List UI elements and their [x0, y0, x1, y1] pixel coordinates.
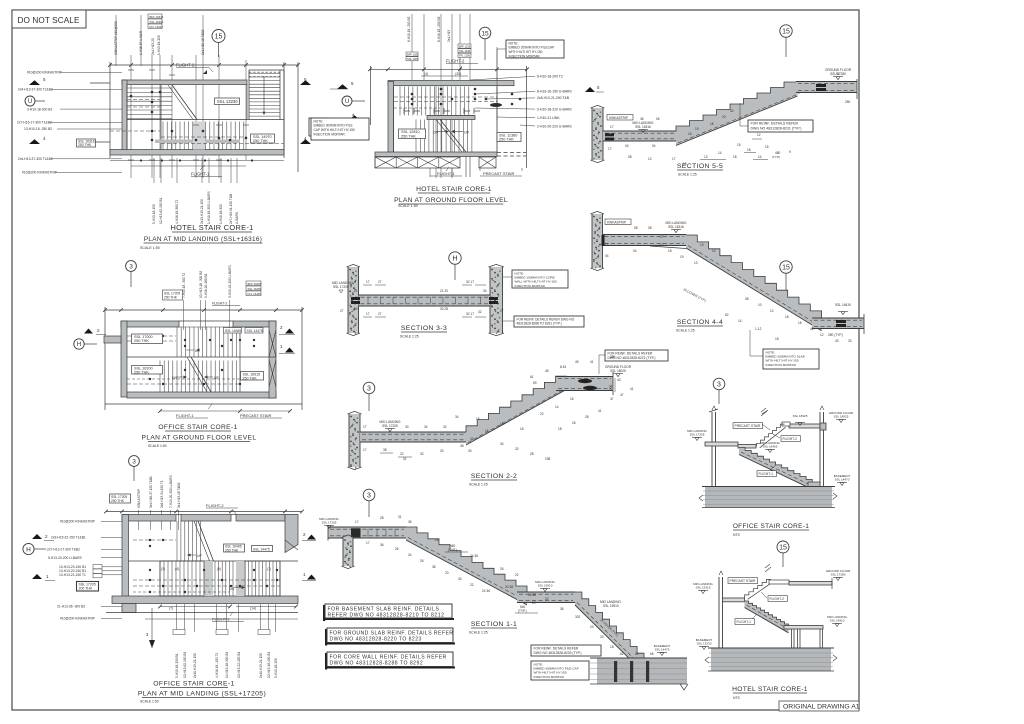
- svg-text:9: 9: [789, 150, 791, 154]
- svg-text:49: 49: [575, 360, 579, 364]
- svg-text:15: 15: [737, 143, 741, 147]
- svg-text:8-H10-18-200 T2: 8-H10-18-200 T2: [537, 75, 563, 79]
- section marker 15: [479, 27, 491, 39]
- svg-text:DN: DN: [229, 587, 234, 591]
- svg-text:8-H16-16-150 U-BARS: 8-H16-16-150 U-BARS: [537, 90, 572, 94]
- svg-text:DWG NO 48312828-8231 (TYP.): DWG NO 48312828-8231 (TYP.): [751, 126, 802, 130]
- svg-text:18: 18: [775, 337, 779, 341]
- section marker 3: [129, 456, 140, 467]
- svg-text:(TYP.): (TYP.): [448, 548, 457, 552]
- svg-text:3x4-H16-37-150 T&B1: 3x4-H16-37-150 T&B1: [149, 476, 153, 508]
- svg-text:21-H13-36 -300 B2: 21-H13-36 -300 B2: [57, 605, 85, 609]
- svg-text:SSL 13230: SSL 13230: [697, 642, 712, 646]
- flight break diagonal: [440, 120, 466, 153]
- svg-text:17: 17: [363, 448, 367, 452]
- svg-text:1-H16-87 U-BAR: 1-H16-87 U-BAR: [139, 30, 143, 55]
- top wall opening: [179, 320, 233, 322]
- office stair core-1 plan at mid landing: [23, 456, 316, 704]
- top wall: [388, 81, 514, 86]
- svg-text:FLIGHT-1: FLIGHT-1: [212, 617, 230, 622]
- interior mid line: [127, 356, 276, 358]
- svg-text:FOR REINF. DETAILS REFER: FOR REINF. DETAILS REFER: [534, 647, 579, 651]
- svg-text:62: 62: [620, 652, 624, 656]
- bottom wall: [110, 150, 284, 156]
- svg-text:SCALE 1:25: SCALE 1:25: [678, 173, 697, 177]
- svg-text:12: 12: [648, 157, 652, 161]
- right wall with chamfer: [285, 515, 298, 553]
- svg-text:15: 15: [485, 429, 489, 433]
- svg-text:32 17: 32 17: [466, 312, 474, 316]
- svg-text:SCALE 1:50: SCALE 1:50: [140, 246, 160, 250]
- right wall: [269, 321, 276, 398]
- svg-text:22: 22: [470, 583, 474, 587]
- left wall: [122, 515, 129, 597]
- svg-text:H: H: [26, 546, 31, 553]
- svg-text:200 THK: 200 THK: [79, 587, 93, 591]
- svg-text:REFER DWG NO 48312828-8210 TO: REFER DWG NO 48312828-8210 TO 8212: [328, 613, 445, 619]
- svg-text:15: 15: [765, 145, 769, 149]
- top dimension line: [105, 309, 302, 311]
- svg-text:1-12: 1-12: [755, 327, 762, 331]
- svg-text:SCALE 1:50: SCALE 1:50: [148, 444, 167, 448]
- svg-text:10: 10: [758, 303, 762, 307]
- svg-text:SSL 15316: SSL 15316: [696, 586, 711, 590]
- svg-text:41: 41: [630, 387, 634, 391]
- svg-text:31: 31: [398, 515, 402, 519]
- svg-text:21 20: 21 20: [440, 289, 448, 293]
- svg-text:17: 17: [660, 235, 664, 239]
- svg-text:65: 65: [650, 652, 654, 656]
- interior outline: [393, 87, 395, 153]
- svg-text:17: 17: [355, 520, 359, 524]
- SSL 14970 box: [251, 134, 275, 143]
- mid landing slab top left: [328, 527, 406, 538]
- svg-text:17: 17: [672, 157, 676, 161]
- section marker 15: [780, 261, 792, 273]
- svg-text:2x7-H13-91-150 T&B: 2x7-H13-91-150 T&B: [229, 194, 233, 224]
- svg-text:13-H10-18 -250 B2: 13-H10-18 -250 B2: [24, 127, 52, 131]
- svg-text:18: 18: [798, 321, 802, 325]
- reinforcement dashed lines: [127, 99, 160, 101]
- stair flight up: [466, 376, 567, 445]
- SSL 11380 box: [497, 133, 521, 142]
- svg-text:HOTEL STAIR CORE-1: HOTEL STAIR CORE-1: [170, 223, 253, 232]
- svg-text:FLIGHT-2: FLIGHT-2: [212, 302, 227, 306]
- bottom dim lines: [106, 612, 298, 614]
- flight break diagonal: [198, 521, 214, 561]
- svg-text:SSL 16465: SSL 16465: [225, 329, 241, 333]
- svg-text:FOR REINF. DETAILS REFER: FOR REINF. DETAILS REFER: [751, 122, 799, 126]
- reinf note 1-1: [531, 645, 601, 656]
- svg-text:18: 18: [785, 315, 789, 319]
- svg-text:SSL 18025: SSL 18025: [610, 369, 626, 373]
- dashed reinforcement: [127, 335, 176, 337]
- svg-text:SSL 1281: SSL 1281: [407, 57, 419, 61]
- svg-text:BFF 16316: BFF 16316: [150, 15, 164, 19]
- svg-text:47: 47: [620, 393, 624, 397]
- svg-text:FOR CORE WALL REINF. DETAILS R: FOR CORE WALL REINF. DETAILS REFER: [330, 654, 447, 660]
- foundation raft: [711, 648, 831, 671]
- svg-text:FFL 16316: FFL 16316: [150, 25, 164, 29]
- core wall: [349, 414, 360, 467]
- svg-text:3x1-H13-18 T&B2: 3x1-H13-18 T&B2: [177, 482, 181, 508]
- section marker 3: [363, 489, 375, 501]
- arrow markers right: [307, 535, 316, 540]
- svg-text:14: 14: [738, 319, 742, 323]
- svg-text:PLAN AT GROUND FLOOR LEVEL: PLAN AT GROUND FLOOR LEVEL: [142, 435, 257, 442]
- svg-text:DWG NO 48312828-8288 TO 8292: DWG NO 48312828-8288 TO 8292: [330, 661, 424, 667]
- svg-text:14: 14: [712, 249, 716, 253]
- svg-text:3: 3: [717, 382, 721, 389]
- svg-text:15: 15: [476, 417, 480, 421]
- svg-text:SSL 15910: SSL 15910: [538, 584, 553, 588]
- office stair core-1 elevation: [687, 378, 854, 537]
- svg-text:18: 18: [710, 122, 714, 126]
- grid marker U: [342, 96, 352, 106]
- ground floor landing slab: [796, 82, 857, 93]
- svg-text:32: 32: [478, 310, 482, 314]
- section marker 15: [777, 541, 789, 553]
- svg-text:SECTION 5-5: SECTION 5-5: [677, 163, 723, 170]
- flight-1 treads: [162, 122, 164, 150]
- basement slab note box: [323, 605, 325, 621]
- svg-text:SECTION 4-4: SECTION 4-4: [677, 319, 723, 326]
- svg-text:KINKASTRIP #10@200: KINKASTRIP #10@200: [114, 21, 118, 55]
- grid marker H: [23, 543, 34, 554]
- svg-text:24 36: 24 36: [482, 589, 490, 593]
- svg-text:(14): (14): [250, 607, 256, 611]
- stair flight descending: [686, 235, 822, 331]
- flight 2 descending steep: [575, 592, 644, 673]
- svg-text:15: 15: [779, 545, 787, 552]
- svg-text:250 THK: 250 THK: [499, 137, 514, 141]
- svg-text:10-H13-21-150 T1: 10-H13-21-150 T1: [59, 573, 86, 577]
- tread band groups: [204, 561, 213, 596]
- ground floor slab: [789, 424, 820, 428]
- office stair core-1 plan at ground floor level: [74, 261, 304, 448]
- right core wall: [490, 267, 503, 333]
- flight-1 label: [757, 471, 776, 477]
- svg-text:43: 43: [617, 378, 621, 382]
- svg-text:PLAN AT MID LANDING (SSL+17205: PLAN AT MID LANDING (SSL+17205): [138, 691, 266, 698]
- svg-text:SSL 14475: SSL 14475: [655, 648, 670, 652]
- svg-text:04: 04: [652, 144, 656, 148]
- svg-text:30: 30: [730, 109, 734, 113]
- svg-text:SSL 17205: SSL 17205: [333, 285, 349, 289]
- svg-text:SSL 16465: SSL 16465: [763, 445, 778, 449]
- svg-text:250 (TYP.): 250 (TYP.): [828, 333, 843, 337]
- svg-text:17: 17: [608, 147, 612, 151]
- svg-text:2x8-H13-34-150 T1: 2x8-H13-34-150 T1: [160, 480, 164, 508]
- svg-text:13: 13: [704, 155, 708, 159]
- svg-text:DN: DN: [433, 131, 439, 135]
- svg-text:17: 17: [660, 243, 664, 247]
- svg-text:33: 33: [848, 339, 852, 343]
- section 2-2: [348, 350, 669, 487]
- svg-text:4-H16-18 -150 T2: 4-H16-18 -150 T2: [215, 653, 219, 678]
- svg-text:UP: UP: [464, 131, 470, 135]
- svg-text:(6): (6): [217, 567, 221, 571]
- svg-text:26: 26: [500, 567, 504, 571]
- svg-text:250 THK: 250 THK: [134, 370, 149, 374]
- section marker 15: [212, 30, 225, 43]
- top wall: [122, 80, 247, 85]
- svg-text:FLIGHT-1: FLIGHT-1: [737, 620, 752, 624]
- x-braced frame right: [479, 157, 496, 168]
- svg-text:41: 41: [590, 360, 594, 364]
- left wall: [388, 82, 394, 153]
- svg-text:2x4-H13-20: 2x4-H13-20: [151, 38, 155, 55]
- svg-text:SSL 15910: SSL 15910: [603, 604, 619, 608]
- flight-2 treads: [399, 87, 401, 116]
- bottom wall: [127, 392, 276, 398]
- wall stub below slab: [343, 538, 353, 567]
- flight-1 treads: [415, 120, 417, 153]
- svg-text:52: 52: [725, 313, 729, 317]
- svg-text:10-H13-18-150 B1: 10-H13-18-150 B1: [267, 652, 271, 678]
- top dimension line: [110, 64, 298, 66]
- svg-text:(30): (30): [455, 72, 461, 76]
- grid marker H: [449, 252, 461, 264]
- reinf note box: [748, 120, 813, 132]
- bar dots: [411, 93, 414, 96]
- svg-text:INJECTION MORTAR: INJECTION MORTAR: [534, 675, 565, 679]
- svg-text:INJECTION MORTAR: INJECTION MORTAR: [766, 363, 797, 367]
- bar dots: [151, 91, 154, 94]
- svg-text:36: 36: [380, 543, 384, 547]
- svg-text:2x10-H13-24-150: 2x10-H13-24-150: [259, 653, 263, 678]
- svg-text:#10@200 KINKASTRIP: #10@200 KINKASTRIP: [60, 520, 96, 524]
- svg-text:9-H16-20-180 B1: 9-H16-20-180 B1: [204, 273, 208, 298]
- svg-text:FLIGHT-1: FLIGHT-1: [191, 172, 210, 177]
- core wall (hatched): [592, 108, 603, 160]
- svg-text:16: 16: [570, 397, 574, 401]
- section arrows right: [300, 80, 311, 85]
- hotel stair core-1 elevation: [693, 541, 851, 700]
- svg-text:#10@200 KINKASTRIP: #10@200 KINKASTRIP: [22, 171, 58, 175]
- svg-text:2-H10-20-220 U-BARS: 2-H10-20-220 U-BARS: [537, 124, 572, 128]
- svg-text:20: 20: [532, 601, 536, 605]
- svg-text:41: 41: [598, 409, 602, 413]
- svg-text:UP: UP: [214, 376, 219, 380]
- svg-text:INJECTION MORTAR: INJECTION MORTAR: [509, 54, 541, 58]
- reinf details note 3-3: [514, 316, 584, 327]
- svg-text:5-H13-18-150 B1: 5-H13-18-150 B1: [175, 653, 179, 678]
- svg-text:INJECTION MORTAR: INJECTION MORTAR: [314, 132, 346, 136]
- svg-text:SSL 18025: SSL 18025: [834, 415, 849, 419]
- svg-text:SSL 16316: SSL 16316: [150, 20, 164, 24]
- svg-text:PRECAST STAIR: PRECAST STAIR: [483, 171, 515, 176]
- flight-2 label: [781, 436, 800, 442]
- svg-text:33: 33: [600, 635, 604, 639]
- svg-text:250 THK: 250 THK: [401, 134, 416, 138]
- note embed 150 box: [512, 270, 568, 288]
- svg-text:5-H13-20-200 U-BARS: 5-H13-20-200 U-BARS: [48, 556, 83, 560]
- precast zigzag: [745, 579, 771, 598]
- svg-text:250 THK: 250 THK: [164, 296, 178, 300]
- svg-text:SCALE 1:25: SCALE 1:25: [400, 335, 419, 339]
- kinkastrip label: [605, 219, 631, 225]
- svg-text:28: 28: [380, 516, 384, 520]
- svg-text:31: 31: [403, 457, 407, 461]
- flight-1 treads lower: [159, 361, 161, 393]
- UP arrow upper: [188, 554, 196, 556]
- svg-text:1-H10-21 LINK: 1-H10-21 LINK: [537, 116, 560, 120]
- svg-text:PLAN AT MID LANDING (SSL+16316: PLAN AT MID LANDING (SSL+16316): [144, 236, 262, 243]
- boxed headers on columns: [173, 630, 185, 635]
- svg-text:36: 36: [640, 117, 644, 121]
- hotel stair core-1 plan at mid landing: [17, 14, 331, 250]
- svg-text:8 43: 8 43: [560, 365, 566, 369]
- svg-text:(TYP.): (TYP.): [772, 155, 780, 159]
- svg-text:SSL 1138: SSL 1138: [459, 49, 471, 53]
- stair flight up to ground floor: [676, 82, 798, 146]
- svg-text:SSL 14910: SSL 14910: [830, 619, 845, 623]
- svg-text:18: 18: [688, 132, 692, 136]
- svg-text:SSL 17280: SSL 17280: [830, 72, 846, 76]
- svg-text:26: 26: [420, 559, 424, 563]
- svg-text:SSL 13230: SSL 13230: [217, 99, 238, 104]
- flight 1 descending: [406, 527, 527, 605]
- mid landing slab left: [705, 442, 738, 446]
- svg-text:2x7-H16-17-300 T1&B2: 2x7-H16-17-300 T1&B2: [17, 121, 52, 125]
- svg-text:08: 08: [634, 226, 638, 230]
- svg-text:30: 30: [405, 425, 409, 429]
- note embed 300mm box: [311, 118, 369, 140]
- svg-text:04: 04: [633, 249, 637, 253]
- svg-text:2x4-H13: 2x4-H13: [447, 30, 451, 42]
- svg-text:INJECTION MORTAR: INJECTION MORTAR: [515, 284, 546, 288]
- svg-text:FLIGHT-2: FLIGHT-2: [446, 59, 465, 64]
- SSL 17205 box above: [163, 290, 183, 300]
- svg-text:47: 47: [610, 397, 614, 401]
- svg-text:24 36: 24 36: [470, 554, 478, 558]
- svg-text:14-H13-18-300 B1: 14-H13-18-300 B1: [225, 652, 229, 678]
- left wall stub: [104, 336, 121, 343]
- svg-text:3: 3: [129, 263, 133, 270]
- svg-text:SSL 17280: SSL 17280: [831, 573, 846, 577]
- svg-text:34: 34: [470, 437, 474, 441]
- svg-text:3: 3: [367, 493, 371, 500]
- bar dots: [149, 539, 151, 541]
- svg-text:13: 13: [694, 261, 698, 265]
- flight break diagonal: [172, 85, 197, 120]
- svg-text:UP: UP: [197, 554, 202, 558]
- dashed wall continuation: [497, 152, 526, 154]
- grid marker U: [25, 96, 35, 106]
- svg-text:18: 18: [668, 249, 672, 253]
- SSL 16316 box: [77, 139, 96, 147]
- svg-text:23: 23: [590, 625, 594, 629]
- svg-text:250 THK: 250 THK: [134, 339, 149, 343]
- svg-text:KINKASTRIP: KINKASTRIP: [137, 489, 141, 508]
- svg-text:2x8-H13-21-200 T&B: 2x8-H13-21-200 T&B: [537, 96, 570, 100]
- svg-text:OFFICE STAIR CORE-1: OFFICE STAIR CORE-1: [733, 523, 809, 530]
- svg-text:(TYP.): (TYP.): [518, 609, 527, 613]
- plan interior outline: [126, 85, 128, 150]
- svg-text:32: 32: [443, 425, 447, 429]
- right wall: [819, 412, 821, 487]
- piles: [614, 661, 617, 682]
- svg-text:17: 17: [366, 312, 370, 316]
- svg-text:#10@200 KINKASTRIP: #10@200 KINKASTRIP: [27, 71, 63, 75]
- svg-text:22: 22: [400, 452, 404, 456]
- BFF stack mid: [458, 44, 471, 48]
- left core wall: [348, 267, 359, 333]
- svg-text:1-H10-18-300 U-BARS: 1-H10-18-300 U-BARS: [207, 191, 211, 224]
- svg-text:61: 61: [530, 375, 534, 379]
- SSL 13230 box: [215, 98, 240, 105]
- svg-text:30: 30: [468, 449, 472, 453]
- svg-text:SCALE 1:25: SCALE 1:25: [469, 631, 488, 635]
- svg-text:SSL 17205: SSL 17205: [322, 521, 337, 525]
- svg-text:U: U: [345, 99, 349, 105]
- SSL box top left: [110, 494, 131, 503]
- svg-text:28: 28: [530, 452, 534, 456]
- svg-text:34: 34: [500, 442, 504, 446]
- lower dim lines below plan1: [110, 160, 284, 162]
- svg-text:FOR GROUND SLAB REINF. DETAILS: FOR GROUND SLAB REINF. DETAILS REFER: [330, 630, 454, 636]
- kinkastrip label: [607, 115, 633, 121]
- section 5-5: [585, 25, 857, 177]
- landing slab between walls: [359, 295, 491, 306]
- svg-text:30: 30: [458, 577, 462, 581]
- svg-text:38: 38: [460, 444, 464, 448]
- svg-text:64: 64: [635, 652, 639, 656]
- svg-text:17: 17: [366, 280, 370, 284]
- BFF stack left: [406, 52, 418, 56]
- drawing frame border: [12, 10, 859, 710]
- svg-text:SCALE 1:25: SCALE 1:25: [676, 329, 695, 333]
- svg-text:14: 14: [758, 155, 762, 159]
- section marker 3: [713, 378, 725, 390]
- svg-text:17: 17: [605, 243, 609, 247]
- svg-text:SSL 16465: SSL 16465: [248, 287, 262, 291]
- svg-text:34: 34: [455, 415, 459, 419]
- svg-text:04: 04: [605, 254, 609, 258]
- svg-text:BFF 16465: BFF 16465: [248, 282, 262, 286]
- svg-text:14: 14: [555, 405, 559, 409]
- svg-text:#10@200 KINKASTRIP: #10@200 KINKASTRIP: [60, 617, 96, 621]
- svg-text:08: 08: [648, 226, 652, 230]
- flight-1 gray: [739, 448, 818, 493]
- svg-text:28: 28: [585, 415, 589, 419]
- bottom wall: [112, 596, 298, 604]
- svg-text:2x4-H13-37-300 T1&B2: 2x4-H13-37-300 T1&B2: [18, 88, 53, 92]
- svg-text:08: 08: [628, 155, 632, 159]
- svg-text:06: 06: [656, 117, 660, 121]
- svg-text:250 THK: 250 THK: [111, 499, 125, 503]
- hotel stair core-1 plan at ground floor level: [311, 14, 572, 208]
- grid marker H: [74, 339, 84, 349]
- svg-text:SECTION 3-3: SECTION 3-3: [401, 325, 447, 332]
- svg-text:2x7-H13-17-300 T&B2: 2x7-H13-17-300 T&B2: [47, 548, 80, 552]
- svg-text:5-H13-18-150: 5-H13-18-150: [152, 204, 156, 224]
- svg-text:HOTEL STAIR CORE-1: HOTEL STAIR CORE-1: [416, 186, 492, 193]
- svg-text:SSL 17205: SSL 17205: [690, 433, 705, 437]
- svg-text:18: 18: [610, 645, 614, 649]
- svg-text:38: 38: [432, 565, 436, 569]
- dashed reinforcement: [394, 96, 497, 98]
- svg-text:32: 32: [420, 452, 424, 456]
- flight-2 label: [768, 596, 787, 602]
- svg-text:7-H13-20-300 U-BARS: 7-H13-20-300 U-BARS: [169, 475, 173, 508]
- svg-text:36: 36: [560, 607, 564, 611]
- bottom left stub: [122, 604, 136, 613]
- svg-text:20: 20: [445, 571, 449, 575]
- svg-text:250: 250: [610, 355, 616, 359]
- bottom wall slab: [375, 152, 497, 157]
